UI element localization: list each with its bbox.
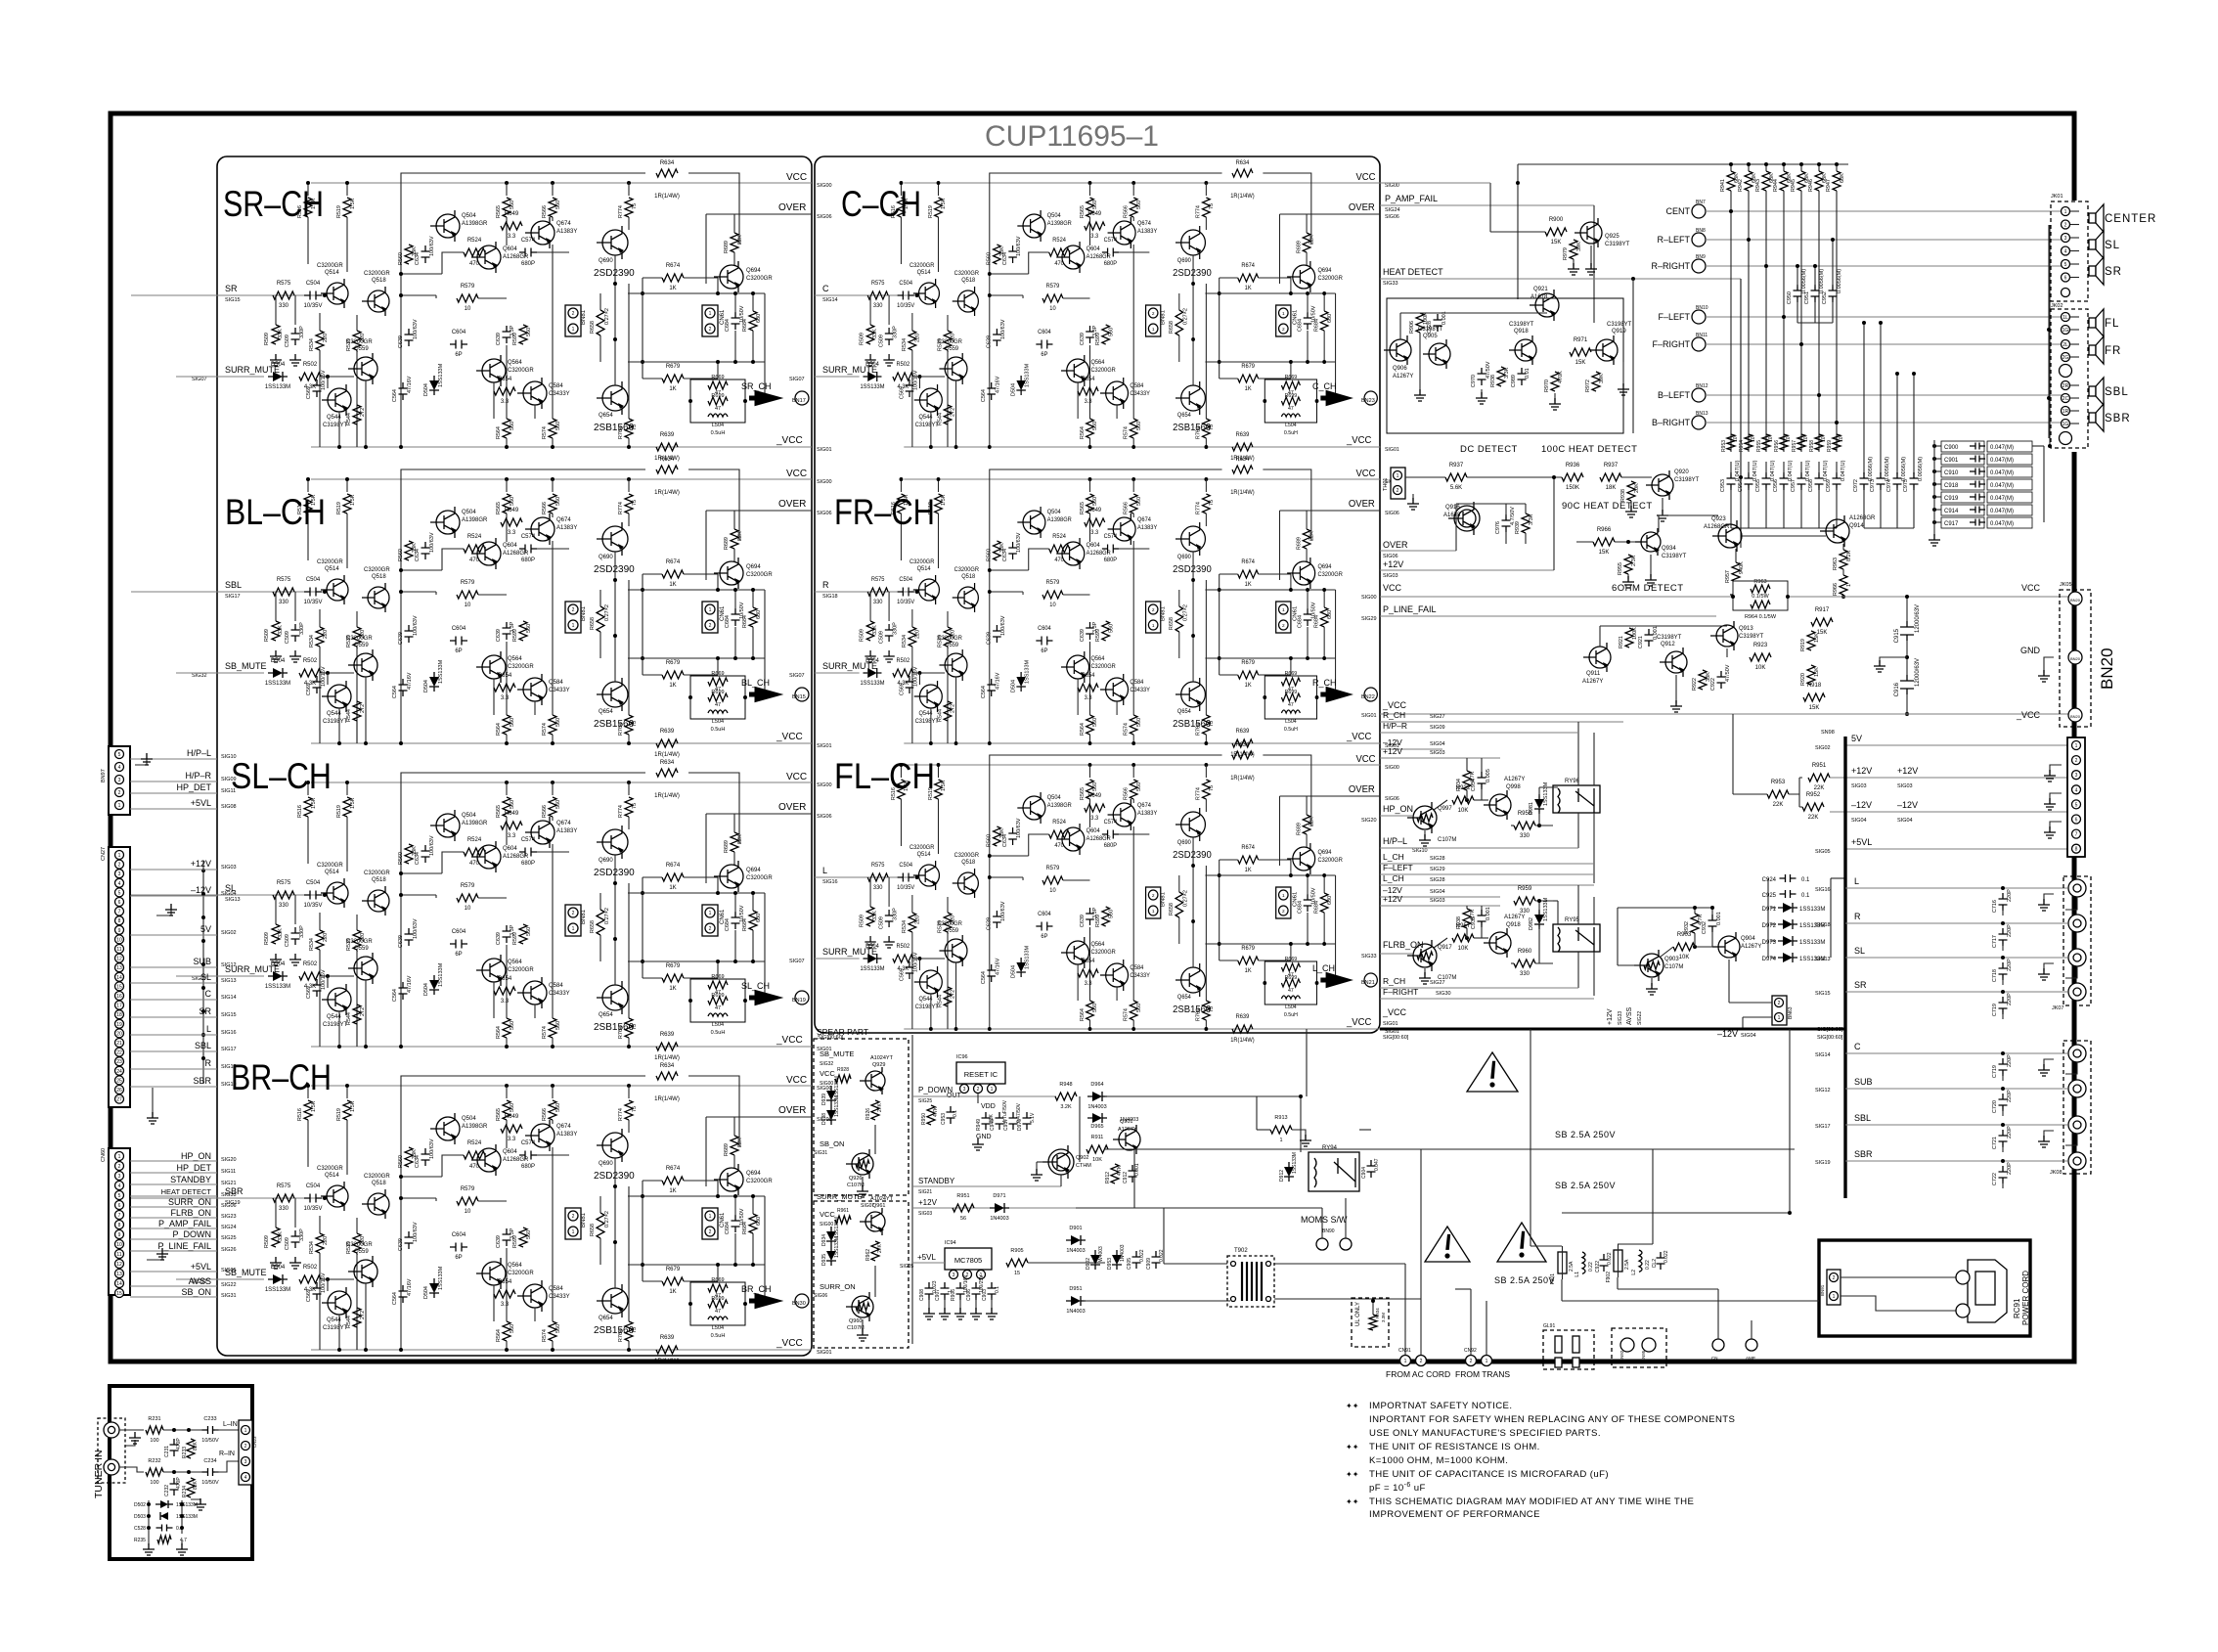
svg-text:FLRB_ON: FLRB_ON xyxy=(1383,940,1424,950)
svg-text:SIG25: SIG25 xyxy=(918,1098,932,1104)
border right edge lower segment xyxy=(2072,452,2077,1362)
fuse F901 2.5A xyxy=(1558,1252,1567,1273)
svg-text:R928: R928 xyxy=(837,1067,849,1073)
svg-text:Q926: Q926 xyxy=(849,1176,862,1182)
svg-text:SIG10: SIG10 xyxy=(221,754,237,760)
svg-text:SR: SR xyxy=(1854,980,1867,990)
wire _VCC rail protection xyxy=(1380,713,2070,715)
svg-text:R926: R926 xyxy=(865,1108,871,1120)
svg-text:SIG21: SIG21 xyxy=(918,1189,932,1195)
svg-text:C3198YT: C3198YT xyxy=(1605,242,1630,247)
svg-text:F902: F902 xyxy=(1606,1272,1612,1283)
resistor R957c 10K xyxy=(1452,934,1474,942)
resistor R906 100K xyxy=(1416,313,1424,333)
RCA jacks tuner xyxy=(98,1418,125,1483)
svg-text:19: 19 xyxy=(116,1022,122,1028)
svg-text:✦✦: ✦✦ xyxy=(1346,1497,1359,1506)
svg-text:SIG07: SIG07 xyxy=(789,377,805,382)
svg-text:R: R xyxy=(205,1058,212,1068)
svg-text:0.005: 0.005 xyxy=(1486,769,1491,782)
resistor R948 3.2K xyxy=(1055,1093,1077,1100)
svg-text:220P: 220P xyxy=(2007,924,2013,937)
svg-text:220P: 220P xyxy=(2007,1126,2013,1139)
svg-text:C231: C231 xyxy=(164,1446,170,1457)
capacitor C912 0.001 xyxy=(1129,1165,1137,1183)
ground hooks RCA2 xyxy=(2044,1059,2054,1067)
svg-text:SIG[00:60]: SIG[00:60] xyxy=(818,1035,844,1041)
svg-text:D502: D502 xyxy=(134,1502,146,1508)
svg-text:SIG18: SIG18 xyxy=(822,594,838,600)
svg-text:3.2K: 3.2K xyxy=(1060,1104,1072,1110)
svg-text:R960: R960 xyxy=(1518,949,1532,955)
svg-text:SIG27: SIG27 xyxy=(1430,714,1445,720)
svg-text:F901: F901 xyxy=(1550,1273,1556,1285)
svg-text:R964 0.1/5W: R964 0.1/5W xyxy=(1745,614,1777,620)
svg-text:7: 7 xyxy=(118,910,121,915)
svg-text:10K: 10K xyxy=(1755,665,1766,671)
diode D965 1N4003 xyxy=(1092,1113,1102,1123)
wire -12V rail xyxy=(1830,811,2070,813)
svg-text:Q929: Q929 xyxy=(872,1062,885,1068)
svg-text:9: 9 xyxy=(118,928,121,934)
svg-text:+5VL: +5VL xyxy=(191,798,211,808)
svg-text:A1267Y: A1267Y xyxy=(1582,679,1603,685)
svg-text:8: 8 xyxy=(118,1223,121,1228)
svg-text:AMP: AMP xyxy=(1746,1356,1755,1361)
svg-text:SIG29: SIG29 xyxy=(1361,616,1377,622)
svg-text:R948: R948 xyxy=(1059,1082,1072,1088)
svg-text:47/50V: 47/50V xyxy=(1725,664,1731,682)
resistor R961 330 xyxy=(835,1216,851,1224)
svg-text:SIG04: SIG04 xyxy=(1897,818,1913,824)
svg-text:C918: C918 xyxy=(1944,483,1959,489)
capacitor C915 12000/63V xyxy=(1900,621,1914,641)
box TUNER IN xyxy=(110,1386,252,1559)
fuse F902 2.5A xyxy=(1614,1250,1622,1272)
svg-text:+12V: +12V xyxy=(918,1198,938,1207)
transistor Q961 A1024YT xyxy=(865,1212,885,1231)
svg-text:1G: 1G xyxy=(2063,422,2069,427)
svg-text:0.047(M): 0.047(M) xyxy=(1990,470,2014,476)
svg-text:HEAT DETECT: HEAT DETECT xyxy=(161,1187,212,1196)
svg-text:21: 21 xyxy=(116,1041,122,1047)
svg-text:C: C xyxy=(822,284,829,293)
svg-text:R912: R912 xyxy=(1105,1172,1111,1183)
wire net SIG33 xyxy=(130,1195,217,1197)
svg-text:R961: R961 xyxy=(837,1208,849,1214)
svg-text:SIG04: SIG04 xyxy=(1741,1033,1756,1039)
svg-text:SIG30: SIG30 xyxy=(1436,991,1451,997)
svg-text:SIG[00:60]: SIG[00:60] xyxy=(1383,1035,1409,1041)
svg-text:CN23: CN23 xyxy=(252,1436,257,1448)
svg-text:D951: D951 xyxy=(1069,1286,1082,1292)
svg-text:330: 330 xyxy=(1520,909,1530,915)
transistor Q925 C3198YT xyxy=(1580,222,1602,244)
relay RY95 xyxy=(1553,924,1600,952)
plug RC91 xyxy=(1968,1260,2007,1322)
svg-text:27: 27 xyxy=(116,1097,122,1103)
svg-text:SIG03: SIG03 xyxy=(1897,783,1913,789)
FR-CH channel amplifier xyxy=(815,457,1399,758)
ground CN60 xyxy=(147,1254,162,1260)
svg-text:CN60: CN60 xyxy=(101,1148,107,1162)
transistor Q906 A1267Y xyxy=(1390,339,1411,361)
speaker icon CENTER xyxy=(2089,213,2096,223)
svg-text:P_AMP_FAIL: P_AMP_FAIL xyxy=(158,1219,211,1228)
svg-text:C3198YT: C3198YT xyxy=(1739,634,1764,640)
svg-text:BN90: BN90 xyxy=(1322,1228,1335,1234)
svg-text:5: 5 xyxy=(118,752,121,758)
svg-text:SL: SL xyxy=(2105,240,2120,251)
svg-text:R956: R956 xyxy=(1774,440,1780,452)
svg-text:SIG15: SIG15 xyxy=(1815,991,1831,997)
svg-text:2: 2 xyxy=(1420,1359,1423,1364)
svg-text:R906: R906 xyxy=(951,1289,956,1301)
svg-text:C973: C973 xyxy=(1870,479,1876,492)
wire net SIG15 xyxy=(130,1016,217,1018)
svg-text:A1267Y: A1267Y xyxy=(1118,1127,1137,1133)
svg-text:SIG07: SIG07 xyxy=(789,673,805,679)
svg-text:+12V: +12V xyxy=(1383,746,1402,756)
svg-text:Q904: Q904 xyxy=(1741,936,1755,942)
svg-text:3: 3 xyxy=(118,871,121,877)
caps cluster reset xyxy=(982,1112,991,1130)
svg-text:H/P–L: H/P–L xyxy=(1383,836,1407,846)
svg-text:5V: 5V xyxy=(1851,734,1862,743)
svg-text:RY95: RY95 xyxy=(1565,917,1580,923)
capacitor C908 0.001 xyxy=(1434,314,1442,332)
wires diode cluster xyxy=(148,1500,150,1545)
svg-text:5: 5 xyxy=(2075,802,2078,808)
svg-text:C924: C924 xyxy=(1762,877,1777,883)
svg-text:A1268GR: A1268GR xyxy=(1849,515,1876,521)
svg-text:AVSS: AVSS xyxy=(189,1276,211,1286)
resistor R928 330 xyxy=(835,1075,851,1083)
svg-text:H/P–L: H/P–L xyxy=(187,748,211,758)
svg-text:C: C xyxy=(205,989,212,999)
svg-text:SURR_MUTE: SURR_MUTE xyxy=(822,365,877,375)
svg-text:17: 17 xyxy=(116,1004,122,1009)
svg-text:R942: R942 xyxy=(1738,179,1744,192)
svg-text:2R: 2R xyxy=(2063,383,2069,389)
svg-text:C922: C922 xyxy=(1710,678,1716,691)
svg-text:BN95: BN95 xyxy=(1641,1350,1646,1362)
svg-text:C903: C903 xyxy=(982,1289,988,1301)
svg-text:RY94: RY94 xyxy=(1322,1145,1338,1151)
svg-text:0.047(U): 0.047(U) xyxy=(1805,460,1811,481)
svg-text:R953: R953 xyxy=(1721,440,1727,452)
svg-text:24: 24 xyxy=(116,1069,122,1075)
resistor R233 82K xyxy=(187,1439,195,1458)
wire +12V rail xyxy=(1830,777,2070,779)
svg-text:SIG22: SIG22 xyxy=(1637,1011,1643,1025)
resistor R960 330 xyxy=(1514,960,1535,967)
wire jack links 2 xyxy=(2065,1062,2077,1074)
wire net SIG23 xyxy=(130,1217,217,1219)
svg-text:6: 6 xyxy=(118,900,121,906)
svg-text:15: 15 xyxy=(116,984,122,990)
wire RCA bus C SUB SBL SBR xyxy=(1845,1052,2067,1054)
svg-text:D902: D902 xyxy=(1086,1258,1091,1270)
svg-text:✦✦: ✦✦ xyxy=(1346,1402,1359,1410)
resistor R963b 8.2K xyxy=(1840,550,1847,569)
svg-text:11: 11 xyxy=(116,947,121,953)
svg-text:D979: D979 xyxy=(1017,1119,1023,1131)
svg-text:BN63: BN63 xyxy=(1788,1006,1794,1019)
svg-text:R979: R979 xyxy=(1563,247,1569,260)
capacitor C970 47/50V xyxy=(1478,368,1486,385)
svg-text:82K: 82K xyxy=(193,1441,199,1451)
ground 6ohm xyxy=(1627,574,1629,579)
svg-text:GL91: GL91 xyxy=(1543,1323,1555,1329)
svg-text:1SS133M: 1SS133M xyxy=(1543,781,1549,806)
svg-text:C954: C954 xyxy=(1738,479,1744,492)
svg-text:A1267Y: A1267Y xyxy=(1504,777,1525,782)
resistor R956 330 xyxy=(1514,822,1535,829)
svg-text:SL_CH: SL_CH xyxy=(741,981,770,991)
svg-text:BN30: BN30 xyxy=(792,1301,806,1307)
svg-text:0.1: 0.1 xyxy=(1801,893,1810,899)
svg-text:2.3K: 2.3K xyxy=(1631,555,1637,566)
svg-text:SB 2.5A 250V: SB 2.5A 250V xyxy=(1555,1130,1616,1139)
svg-text:0.047(M): 0.047(M) xyxy=(1990,483,2014,489)
wire power verticals xyxy=(1306,1029,1308,1096)
svg-text:Q923: Q923 xyxy=(1711,516,1726,522)
svg-text:4: 4 xyxy=(118,1183,121,1189)
svg-text:F–LEFT: F–LEFT xyxy=(1383,863,1413,872)
box middle channel group xyxy=(815,156,1380,1033)
transistor Q917 C107M xyxy=(1413,944,1437,967)
svg-text:1: 1 xyxy=(1846,584,1852,587)
wire net SIG22 xyxy=(130,1285,217,1287)
BR-CH channel amplifier xyxy=(217,1063,832,1364)
svg-text:2: 2 xyxy=(1778,1001,1781,1006)
wire 5V rail xyxy=(1845,744,2070,746)
svg-text:SIG00: SIG00 xyxy=(1361,595,1377,601)
svg-text:BN20: BN20 xyxy=(2070,656,2081,661)
wire net SIG17 xyxy=(130,1050,217,1052)
svg-text:Q934: Q934 xyxy=(1662,546,1676,552)
wire net SIG21 xyxy=(130,1183,217,1185)
svg-text:SIG24: SIG24 xyxy=(1385,207,1400,213)
svg-text:SIG04: SIG04 xyxy=(1430,741,1445,747)
resistor ladder R941-R947 xyxy=(1727,171,1735,191)
svg-text:D938: D938 xyxy=(821,1113,827,1125)
svg-text:0.0056(M): 0.0056(M) xyxy=(1918,457,1924,481)
terminal BN20 GND xyxy=(2068,650,2082,664)
svg-text:BN92: BN92 xyxy=(1619,1350,1624,1362)
svg-text:10K: 10K xyxy=(1092,1157,1102,1163)
svg-text:SIG[00:60]: SIG[00:60] xyxy=(1817,1035,1843,1041)
svg-text:2: 2 xyxy=(244,1444,247,1450)
svg-text:16: 16 xyxy=(116,994,122,1000)
svg-text:SIG12: SIG12 xyxy=(221,962,237,968)
svg-text:F–RIGHT: F–RIGHT xyxy=(1383,987,1418,997)
svg-text:D939: D939 xyxy=(821,1094,827,1105)
svg-text:R943: R943 xyxy=(1755,179,1761,192)
svg-text:R235: R235 xyxy=(134,1538,146,1543)
svg-text:HP_ON: HP_ON xyxy=(181,1151,211,1161)
svg-text:5V: 5V xyxy=(200,924,211,934)
svg-text:R900: R900 xyxy=(1549,217,1564,223)
svg-text:D964: D964 xyxy=(1090,1082,1103,1088)
svg-text:C720: C720 xyxy=(1992,1100,1998,1113)
svg-text:C953: C953 xyxy=(941,1113,947,1125)
svg-text:SIG33: SIG33 xyxy=(221,1192,237,1198)
svg-text:18K: 18K xyxy=(1606,485,1617,491)
RCA jack group 2 xyxy=(2063,1041,2091,1174)
svg-text:14: 14 xyxy=(116,975,122,981)
resistor R926 27K xyxy=(871,1100,879,1120)
svg-text:L: L xyxy=(206,1024,211,1034)
svg-text:SBR: SBR xyxy=(2105,413,2131,424)
svg-text:C952: C952 xyxy=(1822,291,1828,304)
svg-text:11: 11 xyxy=(116,1252,121,1258)
svg-text:68K: 68K xyxy=(1840,173,1845,183)
diode D934 1SS133M xyxy=(826,1231,836,1241)
svg-text:TH01: TH01 xyxy=(1383,478,1389,491)
wire RCA bus L R SL SR xyxy=(1845,887,2067,889)
svg-text:9: 9 xyxy=(118,1232,121,1238)
speaker icon SL xyxy=(2089,240,2096,249)
connector JK01 speaker block A xyxy=(2051,201,2088,301)
svg-text:10K: 10K xyxy=(1458,946,1469,952)
box DC detect cluster xyxy=(1387,298,1623,433)
svg-text:R972: R972 xyxy=(1585,380,1591,392)
wire tuner L path xyxy=(119,1429,144,1431)
svg-text:8: 8 xyxy=(118,918,121,924)
capacitor C232 470P xyxy=(170,1478,179,1496)
svg-text:2.5A: 2.5A xyxy=(1624,1259,1630,1270)
svg-text:1: 1 xyxy=(1397,473,1399,479)
svg-text:C912: C912 xyxy=(1123,1172,1129,1183)
svg-text:Q921: Q921 xyxy=(1533,287,1548,292)
RCA jack group 1 xyxy=(2063,876,2091,1005)
svg-text:SURR_MUTE: SURR_MUTE xyxy=(225,365,280,375)
resistor R234 82K xyxy=(187,1478,195,1497)
svg-text:3.3K: 3.3K xyxy=(1529,513,1534,525)
svg-text:C919: C919 xyxy=(1944,496,1959,502)
wires comparator xyxy=(1599,626,1601,647)
transistor Q919 C3198YT xyxy=(1596,339,1618,361)
connector CN27 main 27-pin xyxy=(109,847,130,1107)
wire signal feeds from connectors xyxy=(131,294,217,296)
inductor L1 0.22 xyxy=(1582,1252,1585,1273)
svg-text:SBR: SBR xyxy=(1854,1149,1873,1159)
svg-text:R963: R963 xyxy=(1833,558,1839,570)
svg-text:1R: 1R xyxy=(2063,409,2069,415)
svg-text:–12V: –12V xyxy=(1897,800,1918,810)
svg-text:R966: R966 xyxy=(1833,583,1839,596)
svg-text:1SS133M: 1SS133M xyxy=(176,1514,198,1520)
svg-text:2G: 2G xyxy=(2063,355,2069,361)
diode D912 1SS133M xyxy=(1284,1167,1294,1177)
svg-text:A1024YT: A1024YT xyxy=(870,1196,894,1202)
warning triangle ac1 xyxy=(1425,1227,1470,1262)
svg-text:SIG22: SIG22 xyxy=(221,1282,237,1288)
svg-text:C232: C232 xyxy=(164,1485,170,1496)
svg-text:FL: FL xyxy=(2105,318,2119,330)
svg-text:1SS133M: 1SS133M xyxy=(1799,907,1825,913)
svg-text:0.22: 0.22 xyxy=(1588,1262,1594,1272)
svg-text:C914: C914 xyxy=(1944,509,1959,514)
svg-text:A1024YT: A1024YT xyxy=(870,1055,894,1061)
svg-text:FROM TRANS: FROM TRANS xyxy=(1455,1369,1510,1379)
svg-text:2: 2 xyxy=(2064,223,2067,229)
svg-text:10/50V: 10/50V xyxy=(201,1480,219,1486)
svg-text:3: 3 xyxy=(118,1174,121,1180)
svg-text:R917: R917 xyxy=(1815,607,1830,613)
relay RY94 xyxy=(1309,1152,1359,1191)
resistor R970 39K xyxy=(1570,240,1577,259)
svg-text:IC96: IC96 xyxy=(956,1054,968,1060)
svg-text:SIG16: SIG16 xyxy=(822,879,838,885)
svg-text:CENT: CENT xyxy=(1666,206,1691,216)
svg-text:4: 4 xyxy=(118,765,121,771)
diode D971b 1N4003 xyxy=(995,1203,1004,1213)
svg-text:0.1: 0.1 xyxy=(995,1286,1000,1293)
svg-text:BR_CH: BR_CH xyxy=(741,1284,772,1294)
svg-text:C107M: C107M xyxy=(1664,964,1683,970)
svg-text:1N4003: 1N4003 xyxy=(1066,1248,1085,1254)
svg-text:STANDBY: STANDBY xyxy=(918,1177,955,1185)
wire relay feed xyxy=(1300,1096,1302,1152)
svg-text:Q997: Q997 xyxy=(1438,806,1452,812)
capacitor C904 0.047 xyxy=(1367,1160,1376,1178)
svg-text:1N4003: 1N4003 xyxy=(1066,1309,1085,1315)
svg-text:SR: SR xyxy=(199,1006,211,1016)
resistor R952 22K xyxy=(1802,803,1824,811)
svg-text:Q917: Q917 xyxy=(1438,945,1452,951)
svg-text:SIG23: SIG23 xyxy=(221,1214,237,1220)
svg-text:100: 100 xyxy=(150,1438,158,1444)
transistor Q998 A1267Y xyxy=(1489,794,1511,816)
ground hooks connector SN98 xyxy=(2050,765,2062,773)
svg-text:4: 4 xyxy=(244,1475,247,1481)
svg-text:1SS133M: 1SS133M xyxy=(176,1502,198,1508)
svg-text:15K: 15K xyxy=(1551,240,1562,246)
svg-text:RY96: RY96 xyxy=(1565,779,1580,784)
svg-text:2: 2 xyxy=(118,790,121,796)
resistor R917 15K xyxy=(1811,618,1833,626)
svg-text:SIG04: SIG04 xyxy=(221,891,237,897)
svg-text:39K: 39K xyxy=(1599,374,1605,383)
svg-text:R945: R945 xyxy=(1791,179,1797,192)
SR-CH channel amplifier xyxy=(217,160,832,462)
svg-text:BN21: BN21 xyxy=(1361,980,1375,986)
svg-text:SIG03: SIG03 xyxy=(1430,750,1445,756)
svg-text:0.047(M): 0.047(M) xyxy=(1990,509,2014,514)
svg-text:940K: 940K xyxy=(1739,561,1745,574)
svg-text:0.001: 0.001 xyxy=(1653,626,1659,640)
svg-text:27K: 27K xyxy=(877,1102,883,1112)
svg-text:BN20: BN20 xyxy=(2070,714,2081,719)
svg-text:C949: C949 xyxy=(990,1119,996,1131)
wire power cord leads xyxy=(1841,1276,1960,1278)
svg-text:C950: C950 xyxy=(1787,291,1793,304)
wire headphone signals xyxy=(130,758,217,760)
svg-text:1L: 1L xyxy=(2063,315,2068,321)
svg-text:BL_CH: BL_CH xyxy=(741,678,770,688)
svg-text:R946: R946 xyxy=(1808,179,1814,192)
wire VCC rail protection xyxy=(1380,596,2070,598)
svg-text:A1267Y: A1267Y xyxy=(1393,374,1413,380)
svg-text:R932: R932 xyxy=(1684,921,1690,934)
svg-text:0.0056(M): 0.0056(M) xyxy=(1885,457,1890,481)
svg-text:SL–CH: SL–CH xyxy=(231,756,332,796)
resistor R922 33K xyxy=(1699,670,1707,690)
svg-text:SIG17: SIG17 xyxy=(1815,1124,1831,1130)
